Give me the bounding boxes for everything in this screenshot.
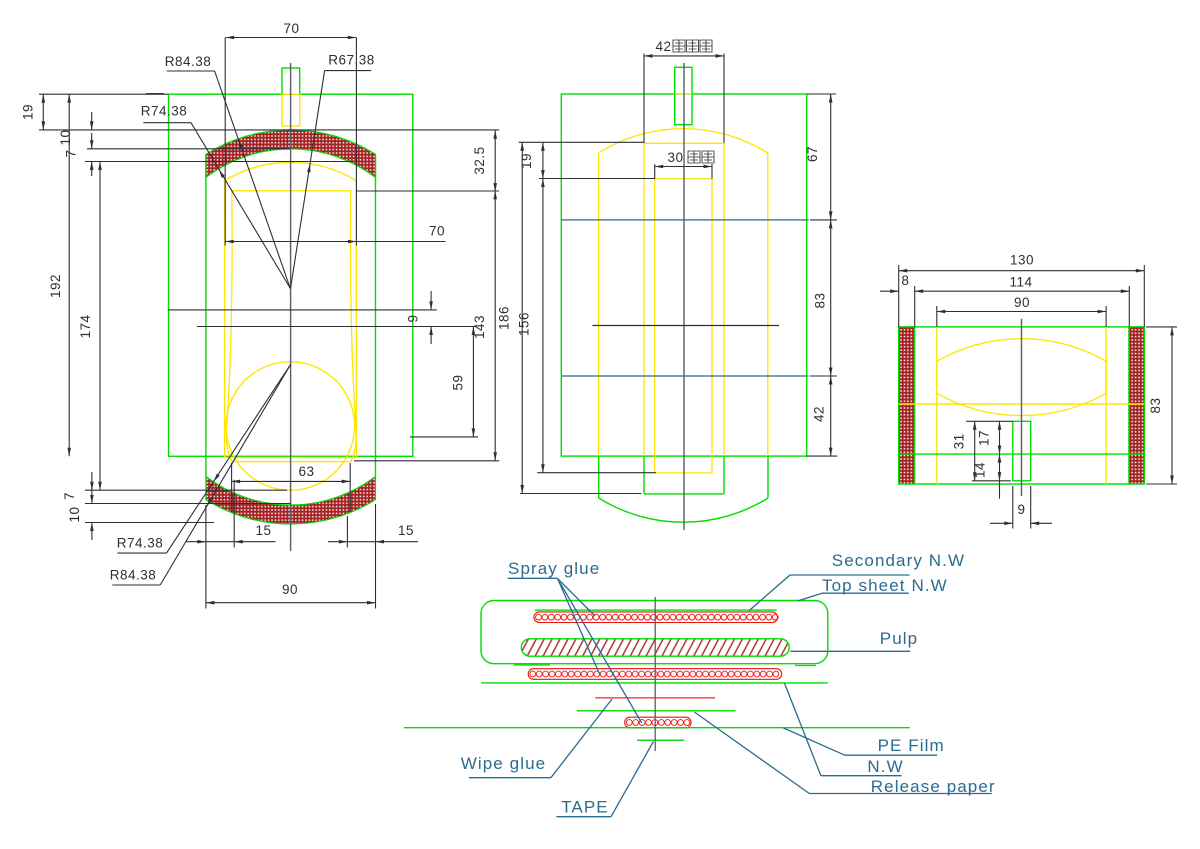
svg-text:R74.38: R74.38 — [117, 536, 164, 551]
svg-text:15: 15 — [255, 523, 271, 538]
svg-text:9: 9 — [406, 314, 421, 322]
svg-text:156: 156 — [517, 312, 532, 336]
svg-text:130: 130 — [1010, 253, 1034, 268]
svg-text:19: 19 — [21, 104, 36, 120]
svg-text:32.5: 32.5 — [472, 146, 487, 174]
svg-text:59: 59 — [451, 374, 466, 390]
svg-text:Spray glue: Spray glue — [508, 559, 600, 578]
svg-text:10: 10 — [58, 129, 73, 145]
svg-text:8: 8 — [901, 273, 909, 288]
svg-text:R84.38: R84.38 — [110, 568, 157, 583]
svg-text:7: 7 — [64, 149, 79, 157]
svg-text:83: 83 — [1148, 397, 1163, 413]
svg-text:Secondary N.W: Secondary N.W — [832, 551, 965, 570]
svg-text:Pulp: Pulp — [880, 629, 918, 648]
svg-text:192: 192 — [48, 274, 63, 298]
svg-text:7: 7 — [62, 492, 77, 500]
svg-text:67: 67 — [805, 146, 820, 162]
svg-text:10: 10 — [67, 506, 82, 522]
svg-text:17: 17 — [977, 430, 992, 446]
svg-text:15: 15 — [398, 523, 414, 538]
svg-text:83: 83 — [813, 292, 828, 308]
svg-text:Wipe glue: Wipe glue — [461, 754, 547, 773]
svg-text:90: 90 — [282, 582, 298, 597]
svg-text:Top sheet N.W: Top sheet N.W — [822, 576, 948, 595]
svg-text:14: 14 — [973, 462, 988, 478]
svg-text:R67.38: R67.38 — [328, 53, 375, 68]
svg-text:31: 31 — [951, 433, 966, 449]
svg-text:143: 143 — [472, 315, 487, 339]
svg-text:9: 9 — [1017, 502, 1025, 517]
svg-text:R84.38: R84.38 — [165, 54, 212, 69]
svg-text:114: 114 — [1009, 275, 1032, 290]
svg-text:R74.38: R74.38 — [141, 104, 188, 119]
svg-text:42: 42 — [655, 39, 671, 54]
svg-text:174: 174 — [78, 314, 93, 338]
svg-text:70: 70 — [283, 21, 299, 36]
svg-text:30: 30 — [667, 150, 683, 165]
svg-text:PE Film: PE Film — [878, 736, 945, 755]
svg-text:63: 63 — [298, 464, 314, 479]
svg-text:70: 70 — [429, 224, 445, 239]
svg-text:19: 19 — [519, 153, 534, 169]
svg-text:42: 42 — [812, 406, 827, 422]
svg-text:TAPE: TAPE — [561, 798, 609, 817]
svg-text:186: 186 — [497, 306, 512, 330]
svg-text:90: 90 — [1014, 295, 1030, 310]
svg-text:N.W: N.W — [867, 757, 903, 776]
